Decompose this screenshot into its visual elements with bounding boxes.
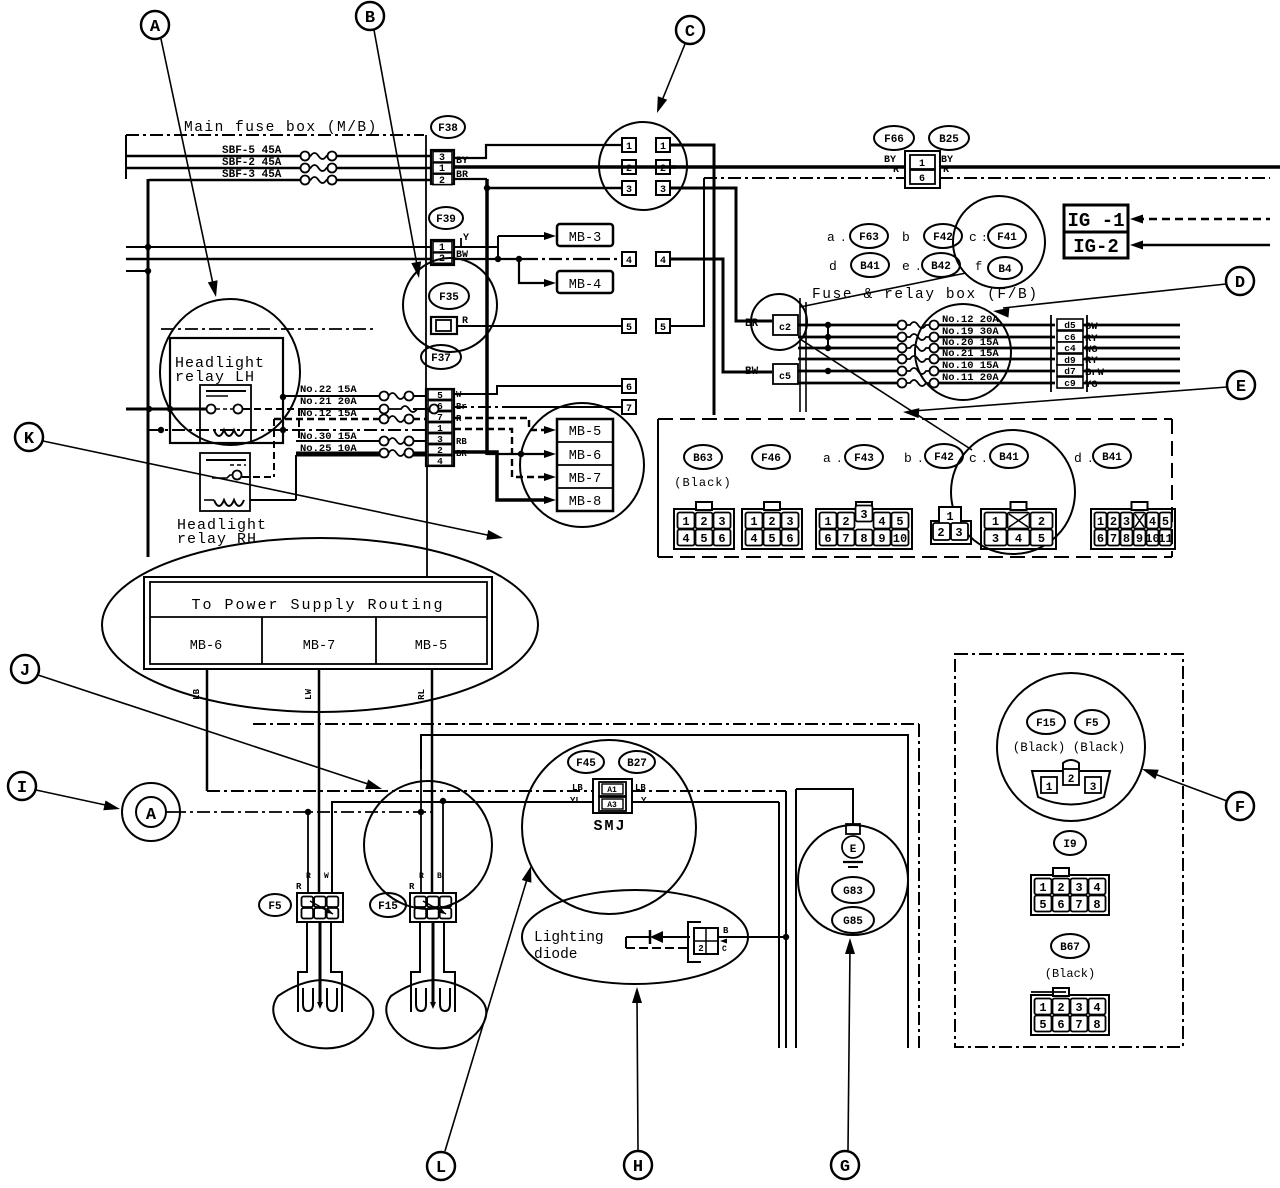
routing box inner <box>150 582 487 664</box>
pin square 2 right <box>656 160 670 174</box>
svg-text:YL: YL <box>570 796 581 806</box>
arrowhead A <box>208 280 218 297</box>
wire relay RH to thick bar <box>250 499 296 501</box>
connector F35 circle (callout B target) <box>403 258 497 352</box>
svg-text:F63: F63 <box>859 232 879 244</box>
connector F38 pin box <box>431 150 454 184</box>
svg-text:(Black): (Black) <box>1045 967 1095 981</box>
junction dot left border y=247 <box>145 244 151 250</box>
svg-text:c5: c5 <box>779 372 791 383</box>
svg-text:D: D <box>1235 274 1245 293</box>
callout letter G <box>831 1151 859 1179</box>
svg-text:2: 2 <box>937 526 944 540</box>
svg-text:MB-7: MB-7 <box>303 639 335 654</box>
headlight relay LH inner box <box>200 385 251 443</box>
connector F37 oval <box>421 345 461 369</box>
svg-text:I: I <box>17 779 27 798</box>
svg-text:d: d <box>829 259 837 274</box>
ground symbol E <box>846 824 860 834</box>
connector F35 oval <box>429 283 469 309</box>
arrowhead into MB-5 <box>544 426 556 434</box>
svg-text:9: 9 <box>878 532 885 546</box>
arrowhead into MB-4 <box>544 279 556 287</box>
svg-text:6: 6 <box>1057 1018 1064 1032</box>
junction dot MB-6 wire <box>518 451 524 457</box>
svg-text:3: 3 <box>786 515 793 529</box>
svg-text:F39: F39 <box>436 214 456 226</box>
connector grid F43 <box>816 509 912 549</box>
svg-text:LB: LB <box>635 783 646 793</box>
connector B44 oval <box>988 257 1022 279</box>
svg-text:B27: B27 <box>627 758 647 770</box>
diagonal line c-F41 to c2 circle <box>800 273 966 307</box>
arrowhead into MB-6 <box>544 450 556 458</box>
arrowhead J <box>365 780 382 790</box>
F/B right connector boxes <box>1057 319 1083 330</box>
connector F15 oval right <box>1027 710 1065 734</box>
connector F5 box <box>297 893 343 922</box>
arrow into IG-1 dashed <box>1130 215 1143 224</box>
svg-text:.: . <box>917 454 924 466</box>
connector F66 oval <box>874 126 914 150</box>
diode symbol <box>650 931 663 943</box>
svg-text:F41: F41 <box>997 232 1017 244</box>
connector B67 oval <box>1051 934 1089 958</box>
svg-text:1: 1 <box>946 510 953 524</box>
svg-text:G85: G85 <box>843 916 863 928</box>
F panel dashed box <box>955 654 1183 1047</box>
svg-text:R: R <box>419 872 424 881</box>
SMJ circle <box>522 740 696 914</box>
wire pin4 right to c5 BW <box>670 259 772 372</box>
svg-text:.: . <box>915 262 922 274</box>
connector B41 oval c <box>990 444 1028 468</box>
junction dot diode wire <box>783 934 789 940</box>
wire pin5 right up to dash-dot <box>670 178 704 326</box>
svg-text:9: 9 <box>1136 532 1143 546</box>
svg-text:B4: B4 <box>998 264 1012 276</box>
connector c5 box <box>773 364 798 384</box>
svg-text:e: e <box>902 259 910 274</box>
svg-text:F43: F43 <box>854 453 874 465</box>
svg-text:6: 6 <box>1057 898 1064 912</box>
wire drop MB-7 <box>318 669 321 893</box>
connector F35 R box <box>431 317 457 334</box>
pin square 3 left <box>622 181 636 195</box>
svg-text:LB: LB <box>572 783 583 793</box>
svg-text:SMJ: SMJ <box>593 818 626 835</box>
leader line B <box>374 30 417 265</box>
svg-text:MB-3: MB-3 <box>569 231 601 246</box>
fuse SBF-2 45A <box>301 164 310 173</box>
svg-text:MB-8: MB-8 <box>569 495 601 510</box>
svg-text:B25: B25 <box>939 134 959 146</box>
callout letter F <box>1226 792 1254 820</box>
fuse SBF-5 45A <box>301 152 310 161</box>
ellipse around routing box <box>102 538 538 712</box>
svg-text:No.12 15A: No.12 15A <box>300 408 357 420</box>
svg-text:6: 6 <box>824 532 831 546</box>
box IG-1 <box>1064 205 1128 232</box>
svg-text:3: 3 <box>1075 881 1082 895</box>
arrowhead C <box>657 96 667 113</box>
connector B42 oval <box>922 253 960 277</box>
vertical link MB-3 <box>497 236 499 259</box>
junction dot y259 x498 <box>495 256 501 262</box>
svg-text:F38: F38 <box>438 123 458 135</box>
ground G85 oval <box>832 907 874 933</box>
svg-text:F45: F45 <box>576 758 596 770</box>
svg-text:1: 1 <box>919 159 925 170</box>
ammeter circle <box>122 783 180 841</box>
ground G83 oval <box>832 877 874 903</box>
svg-text:B42: B42 <box>931 261 951 273</box>
F/B fuse row No.19 30A <box>798 336 898 339</box>
svg-text:I9: I9 <box>1063 839 1076 851</box>
svg-text:2: 2 <box>626 164 632 175</box>
A-meter dash line y=812 <box>173 811 431 813</box>
dashed wire RH contact to No.12 row <box>242 476 274 478</box>
svg-text:2: 2 <box>768 515 775 529</box>
relay RH coil <box>214 500 244 506</box>
svg-text:c2: c2 <box>779 323 791 334</box>
svg-text:3: 3 <box>437 434 443 445</box>
svg-text:1: 1 <box>626 142 632 153</box>
svg-text:J: J <box>20 662 30 681</box>
svg-text:f: f <box>975 260 982 274</box>
F/B connector column <box>799 298 801 412</box>
svg-text:No.12 20A: No.12 20A <box>942 314 999 326</box>
svg-text:No.11 20A: No.11 20A <box>942 372 999 384</box>
svg-text:c: c <box>969 451 977 466</box>
routing box divider <box>150 616 487 618</box>
svg-text:2: 2 <box>1038 515 1045 529</box>
svg-text:7: 7 <box>437 412 443 423</box>
svg-text:IG-2: IG-2 <box>1073 236 1119 258</box>
wire into relay LH <box>126 408 206 411</box>
svg-text:6: 6 <box>786 532 793 546</box>
dash-dot coil wire y=430 <box>148 429 426 431</box>
connector table dashed border <box>658 418 1172 420</box>
wire drop MB-5 <box>431 669 434 893</box>
wire branch to MB-4 <box>519 259 548 283</box>
arrowhead B <box>411 261 421 278</box>
svg-text:1: 1 <box>1039 881 1046 895</box>
svg-text:3: 3 <box>626 185 632 196</box>
svg-text:7: 7 <box>842 532 849 546</box>
svg-text:3: 3 <box>1090 782 1097 794</box>
svg-text:4: 4 <box>626 256 632 267</box>
svg-text:3: 3 <box>992 532 999 546</box>
callout circle around c2 <box>751 294 807 350</box>
svg-text:BrW: BrW <box>1085 367 1105 379</box>
leader line L <box>445 876 528 1151</box>
svg-text:5: 5 <box>437 390 443 401</box>
dash-dot horizontal y=178 <box>704 177 905 179</box>
connector F38 oval <box>431 116 465 138</box>
wire bus to C pin3 <box>487 187 623 190</box>
svg-text:F: F <box>1235 799 1245 818</box>
svg-text:c9: c9 <box>1064 378 1076 389</box>
svg-text:a: a <box>827 230 835 245</box>
F/B fuse row No.11 20A <box>798 382 898 385</box>
svg-text:G83: G83 <box>843 886 863 898</box>
pin square 1 right <box>656 138 670 152</box>
leader line I <box>36 790 110 806</box>
arrowhead F <box>1142 769 1159 779</box>
fuse No.30 15A <box>380 437 389 446</box>
svg-text:8: 8 <box>1123 532 1130 546</box>
svg-text:BW: BW <box>745 366 759 378</box>
svg-text:B41: B41 <box>1102 452 1122 464</box>
headlight relay RH inner box <box>200 453 250 511</box>
svg-text:H: H <box>633 1158 643 1177</box>
svg-text:No.21 20A: No.21 20A <box>300 396 357 408</box>
pin square 6 <box>622 379 636 393</box>
junction dot relay feed <box>146 406 152 412</box>
box MB-3 <box>557 224 613 246</box>
connector F45 oval <box>568 751 604 773</box>
svg-text:1: 1 <box>992 515 999 529</box>
svg-text:B: B <box>365 9 375 28</box>
svg-text:3: 3 <box>860 508 867 522</box>
svg-text:1: 1 <box>660 142 666 153</box>
pin square 7 <box>622 400 636 414</box>
svg-text:No.10 15A: No.10 15A <box>942 360 999 372</box>
callout circle C target <box>599 122 687 210</box>
wire SBF-5 row <box>126 155 300 158</box>
svg-text:1: 1 <box>1046 782 1053 794</box>
callout letter A <box>141 11 169 39</box>
fuse No.21 20A <box>380 405 389 414</box>
callout circle A target <box>160 299 300 445</box>
wire stub y=271 <box>126 270 148 272</box>
svg-text:SBF-2 45A: SBF-2 45A <box>222 157 282 169</box>
main fuse box left border corner <box>125 135 127 179</box>
svg-text:10: 10 <box>893 532 907 546</box>
diode loop wire <box>626 936 650 938</box>
thick wire fuse row No.25 <box>296 452 380 457</box>
svg-text:2: 2 <box>1057 881 1064 895</box>
svg-text:5: 5 <box>1162 515 1169 529</box>
callout circle J target <box>364 781 492 909</box>
svg-text:3: 3 <box>718 515 725 529</box>
left vertical border of M/B <box>147 179 150 557</box>
svg-text:K: K <box>24 430 35 449</box>
leader line K <box>43 441 492 536</box>
svg-text:7: 7 <box>626 404 632 415</box>
svg-text:MB-5: MB-5 <box>569 425 601 440</box>
leader line E <box>913 387 1227 411</box>
connector F63 oval <box>850 224 888 248</box>
wire R from F35 to pin5 <box>457 325 623 327</box>
wire SBF-3 row <box>149 179 300 182</box>
svg-text:4: 4 <box>1093 881 1100 895</box>
connector F5 oval right <box>1075 710 1109 734</box>
svg-text:2: 2 <box>842 515 849 529</box>
svg-text:A: A <box>146 806 157 825</box>
svg-text:3: 3 <box>660 185 666 196</box>
svg-text:B: B <box>723 926 729 936</box>
wire diode to vertical <box>718 936 786 938</box>
svg-text:2: 2 <box>439 176 445 187</box>
svg-text:SBF-5 45A: SBF-5 45A <box>222 145 282 157</box>
F/B fuse row No.10 15A <box>798 370 898 373</box>
arrow into IG-2 <box>1130 241 1143 250</box>
callout letter I <box>8 772 36 800</box>
pin square 2 left <box>622 160 636 174</box>
svg-text:5: 5 <box>896 515 903 529</box>
svg-text:MB-5: MB-5 <box>415 639 447 654</box>
connector F42 oval in table <box>925 444 963 468</box>
connector grid B63 <box>674 509 734 549</box>
svg-text:5: 5 <box>1038 532 1045 546</box>
connector F41 oval <box>988 224 1026 248</box>
wire E ground corner <box>796 789 853 826</box>
svg-text:diode: diode <box>534 947 578 963</box>
junction dots on F/B rows <box>825 322 831 328</box>
svg-text:Y: Y <box>641 796 647 806</box>
svg-text:3: 3 <box>1123 515 1130 529</box>
svg-text:(Black) (Black): (Black) (Black) <box>1013 741 1126 755</box>
arrowhead H <box>632 987 642 1003</box>
svg-text:No.22 15A: No.22 15A <box>300 384 357 396</box>
connector grid B41 d <box>1091 509 1175 549</box>
box IG-2 <box>1064 232 1128 258</box>
thick wire F37 to MB-8 <box>454 452 548 500</box>
svg-text:2: 2 <box>1068 774 1075 786</box>
F/B fuse row No.20 15A <box>798 347 898 350</box>
svg-text:RL: RL <box>417 689 427 700</box>
connector B63 oval <box>684 445 722 469</box>
svg-text:6: 6 <box>718 532 725 546</box>
callout circle K target <box>520 403 644 527</box>
svg-text:F42: F42 <box>933 232 953 244</box>
svg-text:R: R <box>943 165 949 176</box>
svg-text:c4: c4 <box>1064 343 1076 354</box>
wire pin6 from F37 <box>454 386 622 394</box>
wire pin7 from F37 <box>454 406 508 408</box>
svg-text:2: 2 <box>1057 1001 1064 1015</box>
svg-text:Fuse & relay box (F/B): Fuse & relay box (F/B) <box>812 287 1039 303</box>
connector I9 oval <box>1054 831 1086 855</box>
leader line J <box>38 675 371 785</box>
svg-text:2: 2 <box>660 164 666 175</box>
fuse No.22 15A <box>380 392 389 401</box>
svg-text:LW: LW <box>304 688 314 699</box>
leader line F <box>1152 773 1227 801</box>
junction dot bus y=188 <box>484 185 490 191</box>
connector F5 oval <box>259 894 291 916</box>
dash-dot border above relays <box>161 328 373 330</box>
box MB-5 to MB-8 stack <box>557 419 613 511</box>
svg-text:A3: A3 <box>607 801 617 810</box>
svg-text:.: . <box>836 454 843 466</box>
svg-text:C: C <box>722 945 727 954</box>
headlight bulb RH <box>411 922 420 1012</box>
wire bus to MB-6 <box>487 453 548 455</box>
wire SBF-2 row <box>126 167 300 170</box>
pin square 1 left <box>622 138 636 152</box>
svg-text:4: 4 <box>1149 515 1156 529</box>
svg-text:a: a <box>823 451 831 466</box>
wire fuse row No.22 <box>283 395 380 397</box>
connector F15 box <box>410 893 456 922</box>
wire drop MB-6 <box>206 669 209 791</box>
connector F37 pin box <box>426 389 454 466</box>
junction dot y802 x443 <box>440 798 446 804</box>
connector F66/B25 box <box>905 151 940 188</box>
relay LH top bar <box>206 390 246 392</box>
dash-dot corridor y=724 <box>253 723 919 725</box>
svg-text:B41: B41 <box>860 261 880 273</box>
arrowhead I <box>103 801 120 811</box>
svg-text:5: 5 <box>768 532 775 546</box>
svg-text:4: 4 <box>878 515 885 529</box>
svg-text:5: 5 <box>1039 898 1046 912</box>
svg-text:No.30 15A: No.30 15A <box>300 431 357 443</box>
junction dot y812 x421 <box>418 809 424 815</box>
SMJ wire corridor y=791 <box>207 790 593 792</box>
svg-text:R: R <box>306 872 311 881</box>
connector B27 oval <box>619 751 655 773</box>
dashed wire F37 to MB-5 <box>454 418 548 430</box>
svg-text:W: W <box>324 872 329 881</box>
SMJ connector box <box>593 779 632 813</box>
svg-text:B67: B67 <box>1060 942 1080 954</box>
junction dot y812 x308 <box>305 809 311 815</box>
callout circle F target <box>997 673 1145 821</box>
svg-text:E: E <box>850 844 857 856</box>
svg-text:F42: F42 <box>934 452 954 464</box>
svg-text:1: 1 <box>824 515 831 529</box>
svg-text:.: . <box>981 454 988 466</box>
svg-text:BR: BR <box>745 318 759 330</box>
headlight bulb LH <box>298 922 307 1012</box>
wire F37 pin4 down to routing box <box>426 466 428 577</box>
box MB-4 <box>557 271 613 293</box>
wire into F5 connector left <box>307 812 309 893</box>
svg-text:B: B <box>437 872 442 881</box>
svg-text:MB-7: MB-7 <box>569 472 601 487</box>
svg-text:.: . <box>840 233 847 245</box>
svg-text:6: 6 <box>626 383 632 394</box>
svg-text:d5: d5 <box>1064 320 1076 331</box>
leader line D <box>1003 284 1226 308</box>
wire F39-2 to pin4 <box>454 258 525 260</box>
callout letter D <box>1226 267 1254 295</box>
svg-text:11: 11 <box>1158 532 1172 546</box>
arrowhead G <box>845 938 855 954</box>
svg-text:A: A <box>150 18 161 37</box>
wire fuse row No.30 <box>296 440 380 442</box>
callout letter J <box>11 655 39 683</box>
svg-text:3: 3 <box>955 526 962 540</box>
svg-text:Y: Y <box>463 233 469 244</box>
svg-text:RB: RB <box>456 437 467 447</box>
svg-text:MB-6: MB-6 <box>190 639 222 654</box>
lighting diode ellipse <box>522 890 748 984</box>
svg-text:4: 4 <box>437 456 443 467</box>
svg-text:B63: B63 <box>693 453 713 465</box>
svg-text:(Black): (Black) <box>674 476 731 490</box>
svg-text:7: 7 <box>1110 532 1117 546</box>
svg-text:relay RH: relay RH <box>177 531 257 548</box>
svg-text:4: 4 <box>750 532 757 546</box>
connector F46 oval <box>752 445 790 469</box>
svg-text:F15: F15 <box>378 901 398 913</box>
svg-text:b: b <box>904 451 912 466</box>
